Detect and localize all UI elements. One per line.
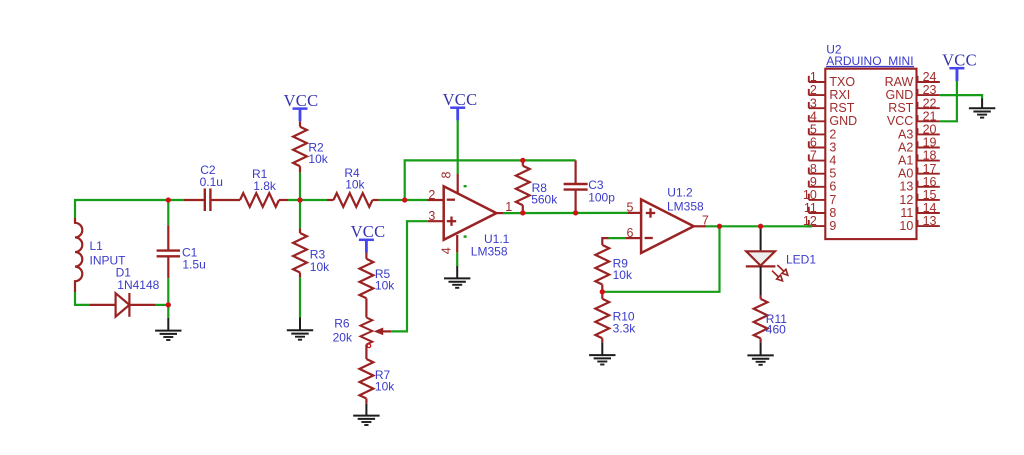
wire pin 3 input bbox=[391, 221, 428, 331]
svg-text:RST: RST bbox=[829, 101, 854, 115]
pin 13 (10) of U2 bbox=[917, 225, 939, 227]
connector U2 body bbox=[825, 69, 916, 239]
svg-text:7: 7 bbox=[810, 149, 817, 163]
node U1.2 feedback junction bbox=[717, 224, 722, 229]
svg-text:23: 23 bbox=[923, 83, 937, 97]
svg-text:LED1: LED1 bbox=[786, 253, 816, 267]
pin 3 (RST) of U2 bbox=[809, 107, 826, 109]
svg-text:17: 17 bbox=[923, 162, 937, 176]
pin 7 (4) of U2 bbox=[809, 160, 826, 162]
wire U1.2 output to pin 12 stub bbox=[806, 225, 812, 227]
svg-text:10: 10 bbox=[803, 188, 817, 202]
svg-text:100p: 100p bbox=[588, 190, 615, 204]
svg-text:8: 8 bbox=[810, 162, 817, 176]
ground for R10 bbox=[601, 342, 603, 355]
svg-text:5: 5 bbox=[627, 201, 634, 215]
svg-text:3: 3 bbox=[810, 96, 817, 110]
wire R2 to node bbox=[299, 173, 301, 200]
wire feedback left drop bbox=[405, 160, 576, 200]
wire feedback U1.2 bbox=[602, 226, 719, 291]
wire pin 6 bbox=[609, 237, 627, 239]
svg-text:A2: A2 bbox=[898, 140, 913, 154]
resistor R3 bbox=[299, 228, 301, 233]
node R8 bottom junction bbox=[520, 210, 525, 215]
svg-text:460: 460 bbox=[766, 323, 786, 337]
svg-text:5: 5 bbox=[810, 123, 817, 137]
potentiometer R6 marker dot bbox=[367, 344, 371, 348]
svg-text:VCC: VCC bbox=[942, 51, 977, 70]
svg-text:2: 2 bbox=[829, 127, 836, 141]
svg-text:RST: RST bbox=[888, 101, 913, 115]
svg-text:6: 6 bbox=[829, 180, 836, 194]
node R8 top junction bbox=[520, 158, 525, 163]
svg-text:GND: GND bbox=[886, 88, 914, 102]
svg-text:6: 6 bbox=[627, 226, 634, 240]
node R1/R2/R3/R4 junction bbox=[297, 197, 302, 202]
node R9/R10 junction bbox=[600, 289, 605, 294]
resistor R9 bbox=[602, 238, 608, 245]
inductor L1 bbox=[75, 218, 82, 292]
pin 18 (A1) of U2 bbox=[917, 160, 939, 162]
node C1/D1 junction bbox=[166, 302, 171, 307]
svg-text:18: 18 bbox=[923, 149, 937, 163]
wire R4 to pin2 node bbox=[379, 199, 428, 201]
svg-text:10k: 10k bbox=[375, 279, 395, 293]
pin 1 (TXO) of U2 bbox=[809, 81, 826, 83]
svg-text:VCC: VCC bbox=[887, 114, 913, 128]
svg-text:TXO: TXO bbox=[829, 75, 855, 89]
op-amp U1.1 pin 4 stub bbox=[456, 235, 458, 253]
wire R1 to node bbox=[288, 199, 327, 201]
resistor R5 bbox=[365, 253, 367, 259]
op-amp U1.1 pin 3 stub bbox=[428, 220, 444, 222]
svg-text:1: 1 bbox=[810, 70, 817, 84]
pin 22 (RST) of U2 bbox=[917, 107, 939, 109]
svg-text:RAW: RAW bbox=[885, 75, 914, 89]
svg-text:VCC: VCC bbox=[351, 222, 386, 241]
svg-text:1.5u: 1.5u bbox=[182, 257, 205, 271]
power VCC for U2 bbox=[949, 67, 964, 70]
svg-text:19: 19 bbox=[923, 136, 937, 150]
potentiometer R6 wiper arrow bbox=[374, 328, 384, 336]
capacitor C1 bbox=[167, 200, 169, 225]
ground for R3 bbox=[299, 318, 301, 331]
svg-text:20: 20 bbox=[923, 123, 937, 137]
wire U1.1 output bbox=[503, 212, 629, 214]
resistor R7 bbox=[365, 345, 367, 360]
pin 17 (A0) of U2 bbox=[917, 173, 939, 175]
svg-text:4: 4 bbox=[440, 247, 454, 254]
pin 8 (5) of U2 bbox=[809, 173, 826, 175]
pin 11 (8) of U2 bbox=[809, 212, 826, 214]
pin 2 (RXI) of U2 bbox=[809, 94, 826, 96]
node L1/C2 junction bbox=[166, 197, 171, 202]
svg-text:7: 7 bbox=[829, 193, 836, 207]
wire R3 to ground bbox=[299, 277, 301, 317]
pin 12 (9) of U2 bbox=[809, 225, 826, 227]
svg-text:LM358: LM358 bbox=[471, 244, 508, 258]
op-amp U1.1 plus mark bbox=[447, 220, 456, 222]
wire VCC drop to pin 8 bbox=[457, 120, 459, 174]
op-amp U1.2 pin 5 stub bbox=[628, 212, 641, 214]
svg-text:11: 11 bbox=[804, 201, 817, 215]
svg-text:12: 12 bbox=[899, 193, 913, 207]
ground for R7 bbox=[365, 404, 367, 416]
wire D1 to node bbox=[155, 304, 168, 306]
wire pin 4 to ground bbox=[456, 253, 458, 266]
svg-text:ARDUINO MINI: ARDUINO MINI bbox=[826, 54, 913, 68]
svg-text:10k: 10k bbox=[375, 379, 395, 393]
svg-text:A1: A1 bbox=[898, 154, 913, 168]
resistor R10 bbox=[601, 292, 603, 299]
svg-text:RXI: RXI bbox=[829, 88, 850, 102]
op-amp U1.2 pin 7 output stub bbox=[694, 225, 706, 227]
svg-text:9: 9 bbox=[829, 219, 836, 233]
pin 5 (2) of U2 bbox=[809, 133, 826, 135]
pin 4 (GND) of U2 bbox=[809, 120, 826, 122]
wire input top bbox=[75, 200, 184, 218]
svg-text:8: 8 bbox=[829, 206, 836, 220]
svg-text:1N4148: 1N4148 bbox=[117, 278, 159, 292]
node LED branch junction bbox=[758, 224, 763, 229]
pin 14 (11) of U2 bbox=[917, 212, 939, 214]
pin 21 (VCC) of U2 bbox=[917, 120, 939, 122]
wire input bottom bbox=[75, 292, 90, 305]
wire VCC to pin 21 bbox=[956, 68, 959, 81]
svg-text:U1.2: U1.2 bbox=[667, 185, 693, 199]
op-amp U1.1 pin 8 stub bbox=[457, 174, 459, 194]
op-amp U1.1 pin 2 stub bbox=[428, 199, 444, 201]
pin 9 (6) of U2 bbox=[809, 186, 826, 188]
pin 20 (A3) of U2 bbox=[917, 133, 939, 135]
svg-text:4: 4 bbox=[810, 109, 817, 123]
svg-text:10k: 10k bbox=[345, 178, 365, 192]
resistor R1 bbox=[240, 193, 279, 207]
svg-text:9: 9 bbox=[810, 175, 817, 189]
capacitor C2 bbox=[184, 199, 204, 201]
wire node to R3 bbox=[299, 200, 301, 228]
svg-text:16: 16 bbox=[923, 175, 937, 189]
ground for U1.1 bbox=[456, 266, 458, 278]
svg-text:A0: A0 bbox=[898, 167, 913, 181]
svg-text:3: 3 bbox=[428, 209, 435, 223]
pin 24 (RAW) of U2 bbox=[917, 81, 939, 83]
svg-text:R6: R6 bbox=[334, 316, 350, 330]
svg-text:4: 4 bbox=[829, 154, 836, 168]
node C3 bottom junction bbox=[573, 210, 578, 215]
node inverting input junction bbox=[402, 197, 407, 202]
pin 16 (13) of U2 bbox=[917, 186, 939, 188]
op-amp U1.2 pin 6 stub bbox=[626, 237, 641, 239]
svg-text:13: 13 bbox=[899, 180, 913, 194]
pin 10 (7) of U2 bbox=[809, 199, 826, 201]
svg-text:3: 3 bbox=[829, 140, 836, 154]
svg-text:2: 2 bbox=[428, 188, 435, 202]
svg-text:1: 1 bbox=[505, 200, 512, 214]
svg-text:13: 13 bbox=[923, 214, 937, 228]
power VCC for U1.1 bbox=[450, 106, 465, 109]
op-amp U1.1 triangle bbox=[444, 186, 497, 240]
svg-text:10k: 10k bbox=[613, 268, 633, 282]
resistor R8 bbox=[522, 160, 524, 165]
pin 15 (12) of U2 bbox=[917, 199, 939, 201]
svg-text:24: 24 bbox=[923, 70, 937, 84]
op-amp U1.1 minus mark bbox=[447, 199, 455, 201]
capacitor C3 bbox=[574, 160, 576, 183]
resistor R11 bbox=[759, 295, 761, 299]
svg-text:6: 6 bbox=[810, 136, 817, 150]
op-amp U1.2 plus mark bbox=[646, 212, 655, 214]
svg-text:LM358: LM358 bbox=[667, 200, 704, 214]
op-amp U1.1 pin 1 output stub bbox=[496, 212, 503, 214]
potentiometer R6 bbox=[361, 318, 373, 345]
op-amp U1.2 triangle bbox=[641, 199, 694, 253]
power VCC for R2 bbox=[293, 107, 308, 110]
svg-text:8: 8 bbox=[440, 171, 454, 178]
svg-text:0.1u: 0.1u bbox=[200, 175, 223, 189]
LED1 emission arrows bbox=[772, 265, 788, 281]
svg-text:11: 11 bbox=[900, 206, 913, 220]
svg-text:GND: GND bbox=[829, 114, 857, 128]
svg-text:21: 21 bbox=[923, 109, 937, 123]
svg-text:VCC: VCC bbox=[443, 90, 478, 109]
power VCC for R5 bbox=[359, 239, 374, 242]
resistor R2 bbox=[299, 121, 301, 126]
svg-text:3.3k: 3.3k bbox=[613, 321, 637, 335]
resistor R4 bbox=[327, 199, 334, 201]
pin 23 (GND) of U2 bbox=[917, 94, 939, 96]
svg-text:VCC: VCC bbox=[284, 91, 319, 110]
svg-text:560k: 560k bbox=[531, 193, 558, 207]
svg-text:5: 5 bbox=[829, 167, 836, 181]
ground for U2 bbox=[981, 99, 983, 109]
op-amp U1.2 minus mark bbox=[645, 237, 653, 239]
svg-text:10k: 10k bbox=[310, 260, 330, 274]
svg-text:A3: A3 bbox=[898, 127, 913, 141]
svg-text:10: 10 bbox=[899, 219, 913, 233]
svg-text:1.8k: 1.8k bbox=[253, 179, 277, 193]
wire U1.2 output bbox=[706, 225, 812, 227]
svg-text:20k: 20k bbox=[333, 330, 353, 344]
svg-text:15: 15 bbox=[923, 188, 937, 202]
LED1 bbox=[760, 226, 762, 250]
wire pin 23 to ground bbox=[940, 95, 982, 98]
diode D1 bbox=[90, 304, 116, 306]
svg-text:L1: L1 bbox=[90, 239, 104, 253]
svg-text:14: 14 bbox=[923, 201, 937, 215]
pin 6 (3) of U2 bbox=[809, 147, 826, 149]
svg-text:10k: 10k bbox=[308, 152, 328, 166]
ground for C1/D1 bbox=[167, 305, 169, 318]
pin 19 (A2) of U2 bbox=[917, 147, 939, 149]
ground for R11 bbox=[760, 343, 762, 356]
svg-text:2: 2 bbox=[810, 83, 817, 97]
svg-text:22: 22 bbox=[923, 96, 937, 110]
